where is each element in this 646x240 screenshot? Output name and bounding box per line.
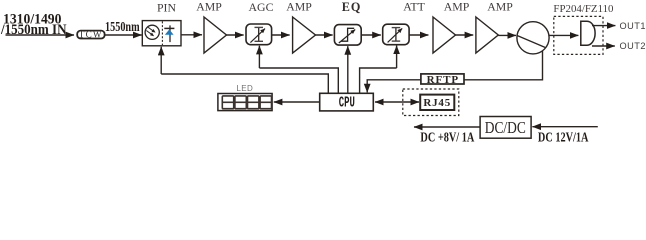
equalizer EQ box	[334, 25, 361, 45]
wire DC input right	[532, 126, 597, 128]
svg-text:DC/DC: DC/DC	[485, 119, 526, 138]
processor box CPU	[320, 93, 374, 111]
dashed box around RJ45	[403, 89, 459, 116]
monitor box RFTP	[421, 74, 464, 86]
filter TCW	[77, 29, 104, 39]
svg-text:RFTP: RFTP	[427, 74, 459, 86]
port box RJ45	[420, 95, 454, 110]
amplifier AMP1	[204, 17, 227, 53]
wire TCW to PIN	[105, 34, 142, 36]
wire AMP1 to AGC	[227, 34, 244, 36]
svg-text:OUT1: OUT1	[620, 21, 646, 31]
wire input arrow into TCW	[6, 34, 75, 36]
wire to OUT2	[592, 45, 615, 47]
control wire CPU to AGC	[259, 46, 338, 94]
control wire CPU to ATT	[360, 46, 397, 94]
svg-text:OUT2: OUT2	[620, 41, 646, 51]
svg-text:PIN: PIN	[157, 1, 176, 15]
wire CPU to LED display	[274, 101, 320, 103]
svg-text:AMP: AMP	[444, 0, 470, 13]
dashed divider inside PIN	[161, 21, 163, 45]
coupler circle with tap	[517, 22, 549, 54]
wire RFTP to CPU arrow down	[367, 80, 421, 93]
wire CPU to RJ45 double arrow	[375, 101, 419, 103]
input label 1310/1490 /1550nm IN	[0, 11, 66, 38]
wire coupler tap down to RFTP line	[464, 51, 543, 80]
svg-text:RJ45: RJ45	[423, 97, 451, 109]
svg-text:FP204/FZ110: FP204/FZ110	[553, 3, 614, 15]
amplifier AMP2	[293, 17, 316, 53]
svg-text:DC 12V/1A: DC 12V/1A	[538, 129, 589, 143]
photodiode circle with light arrows	[145, 25, 159, 39]
splitter D shape	[581, 21, 595, 45]
svg-text:EQ: EQ	[342, 0, 362, 14]
wire coupler to splitter	[549, 34, 578, 36]
wire AGC to AMP2	[272, 34, 290, 36]
svg-text:1550nm: 1550nm	[105, 19, 140, 35]
svg-text:CPU: CPU	[339, 95, 355, 112]
attenuator AGC box	[246, 24, 272, 45]
svg-text:ATT: ATT	[403, 0, 425, 13]
wire DC output left	[414, 126, 480, 128]
amplifier AMP3	[433, 17, 456, 53]
power box DC/DC	[480, 117, 531, 139]
svg-text:AMP: AMP	[196, 0, 222, 13]
wire ATT to AMP3	[409, 34, 428, 36]
wire AMP3 to AMP4	[456, 34, 474, 36]
svg-text:LED: LED	[236, 84, 253, 93]
photodetector PIN box	[142, 21, 181, 46]
attenuator ATT box	[383, 24, 409, 45]
svg-text:AMP: AMP	[286, 0, 312, 13]
svg-text:AGC: AGC	[249, 0, 274, 14]
diode symbol with blue anode	[164, 25, 174, 42]
control wire CPU to PIN	[161, 47, 328, 94]
wire EQ to ATT	[361, 34, 381, 36]
wire AMP2 to EQ	[316, 34, 333, 36]
wire AMP4 to coupler	[498, 34, 516, 36]
wire to OUT1	[592, 25, 615, 27]
control wire CPU to EQ	[347, 46, 349, 93]
amplifier AMP4	[476, 17, 498, 53]
wire PIN to AMP	[181, 34, 202, 36]
svg-text:DC +8V/ 1A: DC +8V/ 1A	[420, 129, 474, 143]
dashed module box FP204/FZ110	[554, 16, 603, 54]
svg-text:TCW: TCW	[79, 29, 103, 39]
svg-text:AMP: AMP	[487, 0, 513, 13]
display LED box	[218, 94, 272, 111]
